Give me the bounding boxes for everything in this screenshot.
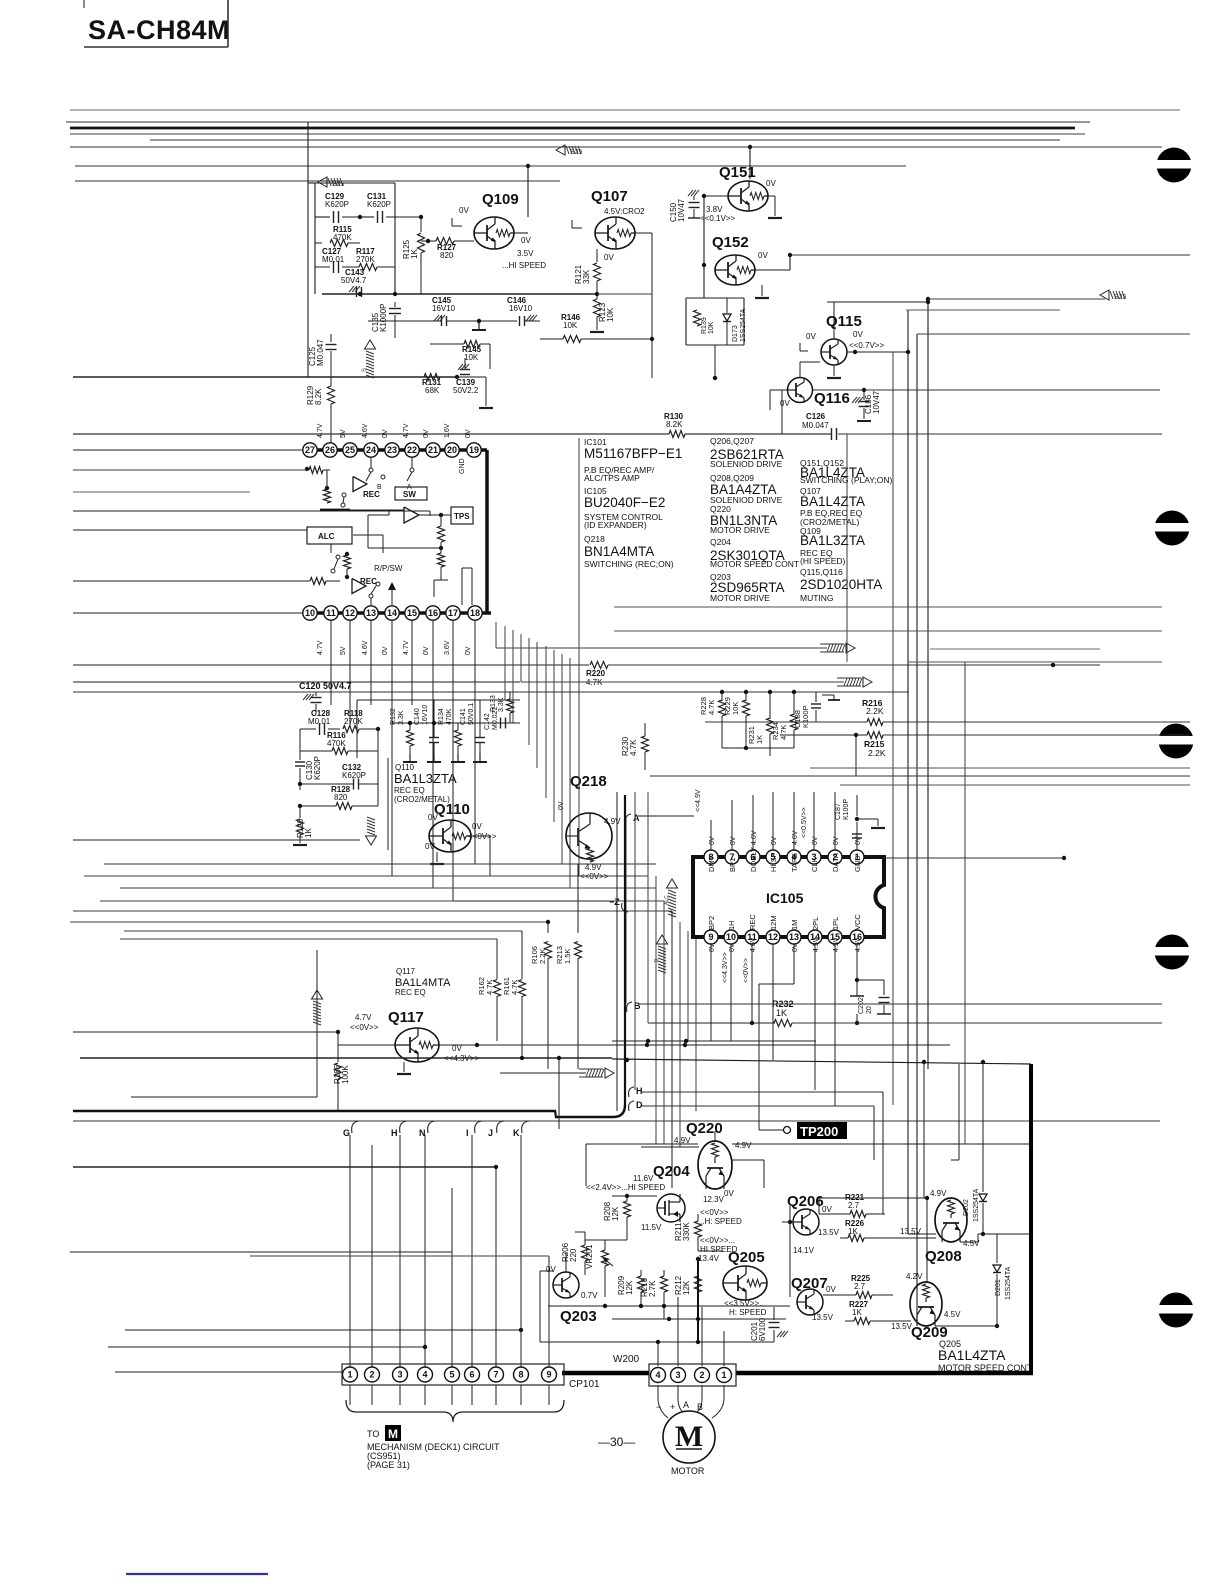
diode D173 1SS254TA (723, 314, 731, 321)
IC101 pin 21 (426, 443, 440, 457)
IC101 pin 27 (303, 443, 317, 457)
Q204 gate wire (627, 1239, 640, 1241)
svg-text:M51167BFP−E1: M51167BFP−E1 (584, 446, 682, 461)
svg-text:9: 9 (708, 932, 713, 942)
svg-text:1.6V: 1.6V (444, 423, 451, 438)
svg-text:12: 12 (768, 932, 778, 942)
wire y1330 (125, 1329, 521, 1331)
svg-text:12.3V: 12.3V (703, 1195, 725, 1204)
bus line 4 (70, 133, 1085, 135)
svg-text:22: 22 (407, 445, 417, 455)
transistor Q203 (553, 1272, 579, 1298)
svg-text:B: B (697, 1402, 703, 1412)
svg-text:0V: 0V (423, 429, 430, 438)
svg-text:4.5V: 4.5V (833, 937, 840, 952)
IC101 resistor TPS chain lower (438, 553, 445, 567)
svg-text:CLK: CLK (810, 857, 819, 872)
svg-text:<<0.7V>>: <<0.7V>> (849, 341, 884, 350)
svg-text:REC: REC (363, 490, 380, 499)
registration mark 5 (1159, 1293, 1194, 1328)
IC101 opamp REC top (353, 477, 367, 492)
svg-text:270K: 270K (344, 717, 363, 726)
CP101 pin 9 (542, 1367, 557, 1382)
IC101 pin 11 (324, 606, 338, 620)
svg-text:12K: 12K (682, 1280, 691, 1295)
svg-text:I: I (466, 1128, 469, 1138)
svg-text:...HI SPEED: ...HI SPEED (502, 261, 546, 270)
svg-text:1K: 1K (776, 1008, 787, 1018)
svg-text:0V: 0V (766, 179, 776, 188)
transistor Q117 (395, 1028, 439, 1062)
IC105 pin 4 (787, 850, 801, 864)
cluster bottom wire (722, 747, 794, 749)
svg-text:+: + (670, 1402, 675, 1412)
motor wire curves (658, 1398, 668, 1418)
wire y888 (120, 887, 656, 889)
wire y1041 (612, 1040, 816, 1042)
wire Q220 right (732, 1159, 764, 1161)
svg-text:3.6V: 3.6V (444, 640, 451, 655)
wire y662 right (908, 661, 1162, 663)
IC105 pin 12 (766, 930, 780, 944)
Q206 base wire (789, 1196, 791, 1206)
svg-text:Q218: Q218 (584, 534, 605, 544)
wire Q115 emitter gnd (833, 365, 835, 376)
svg-text:R/P/SW: R/P/SW (374, 564, 403, 573)
svg-text:10: 10 (726, 932, 736, 942)
svg-text:1SS254TA: 1SS254TA (1005, 1266, 1012, 1300)
IC101 body top edge (303, 448, 487, 452)
bus line 3 thick (70, 127, 1075, 130)
wires right stack (614, 606, 1162, 608)
svg-text:1SS254TA: 1SS254TA (740, 308, 747, 342)
svg-text:4.7V: 4.7V (317, 640, 324, 655)
svg-text:10K: 10K (708, 321, 715, 334)
svg-text:68K: 68K (425, 386, 440, 395)
svg-text:M0.047: M0.047 (316, 339, 325, 366)
svg-text:13: 13 (789, 932, 799, 942)
IC101 pin 13 (364, 606, 378, 620)
wire y911 (73, 910, 672, 912)
svg-text:ALC: ALC (318, 532, 335, 541)
ground R126 (293, 844, 307, 846)
IC101 opamp REC bottom (352, 579, 366, 594)
svg-text:100K: 100K (341, 1065, 350, 1084)
dot R121 junction (595, 292, 599, 296)
IC105 pin 2 (828, 850, 842, 864)
IC105 body (693, 857, 884, 937)
svg-text:4.9V: 4.9V (604, 817, 621, 826)
wire y1256 to pin9 (250, 1255, 549, 1257)
svg-text:4.6V: 4.6V (362, 640, 369, 655)
transistor Q205 (723, 1266, 767, 1300)
svg-text:SA-CH84M: SA-CH84M (88, 15, 230, 45)
svg-text:S25: S25 (332, 181, 345, 188)
svg-text:4.6V: 4.6V (362, 423, 369, 438)
svg-text:VCC: VCC (853, 914, 862, 930)
motor block top border (586, 1143, 698, 1145)
IC101 pin 24 (364, 443, 378, 457)
svg-text:4: 4 (655, 1370, 660, 1380)
transistor Q116 (788, 378, 813, 403)
wire y776 (650, 775, 1190, 777)
node K hook (522, 1121, 529, 1133)
IC101 pin 23 (385, 443, 399, 457)
node N hook (428, 1121, 435, 1133)
wire y864 long (104, 863, 656, 865)
long wire y434 (73, 433, 669, 435)
svg-text:0V: 0V (806, 332, 816, 341)
wire R145 to C139 junction (464, 344, 466, 358)
IC101 pin 19 (467, 443, 481, 457)
svg-text:MOTOR SPEED CONT: MOTOR SPEED CONT (710, 559, 799, 569)
bus line 8 partial (75, 180, 560, 182)
svg-text:−: − (656, 1402, 661, 1412)
wire y1069 to border (612, 1059, 1031, 1064)
svg-text:20: 20 (866, 1006, 873, 1014)
svg-text:S25: S25 (1114, 294, 1127, 301)
svg-text:0.7V: 0.7V (581, 1291, 598, 1300)
svg-text:REC EQ: REC EQ (394, 786, 425, 795)
svg-text:0V: 0V (546, 1265, 556, 1274)
svg-text:10K: 10K (606, 307, 615, 322)
svg-text:0V: 0V (826, 1285, 836, 1294)
IC105 pin 6 (746, 850, 760, 864)
IC101 arrow mid (388, 582, 396, 590)
svg-text:DATA: DATA (831, 853, 840, 872)
wire Q152 output right (755, 269, 790, 271)
svg-text:S25: S25 (570, 149, 583, 156)
svg-text:HI SP: HI SP (769, 852, 778, 872)
arrow down hatched (366, 836, 377, 845)
arrow up ALC25 (365, 340, 376, 349)
CP101 pin 1 (343, 1367, 358, 1382)
svg-text:8.2K: 8.2K (314, 388, 323, 405)
svg-text:MOTOR: MOTOR (671, 1466, 705, 1476)
svg-text:R134: R134 (438, 708, 445, 725)
CP101 pin 4 (418, 1367, 433, 1382)
connector W200 body (649, 1364, 736, 1386)
arrow up on Q117 block (312, 990, 323, 999)
wire y1058 dark (80, 1057, 612, 1059)
ground under R123 (590, 331, 604, 333)
svg-text:4.6V: 4.6V (750, 937, 757, 952)
svg-text:0V: 0V (771, 836, 778, 845)
arrow up left of IC105 a (667, 879, 678, 888)
svg-text:820: 820 (334, 793, 348, 802)
IC101 pin 20 (445, 443, 459, 457)
svg-text:..H: SPEED: ..H: SPEED (700, 1217, 742, 1226)
node G hook (352, 1121, 359, 1133)
wire to REC y581 (73, 580, 310, 582)
svg-text:BU2040F−E2: BU2040F−E2 (584, 495, 665, 510)
vertical x893 (892, 352, 894, 1105)
svg-text:1M: 1M (790, 920, 799, 930)
svg-text:6V100: 6V100 (758, 1317, 767, 1341)
svg-text:11.5V: 11.5V (641, 1223, 662, 1232)
svg-text:M: M (388, 1427, 398, 1441)
svg-text:MUTING: MUTING (800, 593, 834, 603)
node I hook (475, 1121, 482, 1133)
svg-text:K100P: K100P (843, 799, 850, 820)
svg-text:0V: 0V (465, 429, 472, 438)
svg-text:(ID EXPANDER): (ID EXPANDER) (584, 520, 647, 530)
svg-text:5V: 5V (340, 646, 347, 655)
wire y785 (840, 784, 1190, 786)
svg-text:0V: 0V (758, 251, 768, 260)
wire y723 right (510, 722, 520, 724)
IC105 pin 13 (787, 930, 801, 944)
wire Q115 collector top (833, 302, 835, 339)
svg-text:13: 13 (366, 608, 376, 618)
transistor Q204 fet (657, 1194, 685, 1222)
svg-text:16: 16 (428, 608, 438, 618)
vertical x847 (846, 434, 848, 662)
blue pen line (126, 1573, 268, 1575)
svg-text:0V: 0V (521, 236, 531, 245)
svg-text:DMT: DMT (707, 855, 716, 872)
wire y876 (84, 875, 648, 877)
svg-text:<<4.9V: <<4.9V (695, 789, 702, 812)
IC101 inner bus segment (320, 509, 350, 512)
svg-text:D202: D202 (963, 1199, 970, 1216)
Q110 emitter ground (436, 852, 438, 862)
svg-text:D: D (636, 1100, 643, 1110)
wire y901 (100, 900, 664, 902)
IC105 pin 8 (704, 850, 718, 864)
Q220 collector wire (714, 1131, 716, 1141)
svg-text:Q204: Q204 (710, 537, 731, 547)
IC101 wire ALC right (353, 534, 383, 536)
svg-text:BP2: BP2 (707, 916, 716, 930)
IC101 opamp TPS (404, 507, 419, 523)
IC101 pin 12 (343, 606, 357, 620)
svg-text:470K: 470K (327, 739, 346, 748)
Q208 wires (936, 1233, 942, 1235)
svg-text:Q117: Q117 (396, 967, 416, 976)
svg-text:220: 220 (569, 1248, 578, 1262)
svg-text:6: 6 (469, 1370, 474, 1380)
svg-text:H: H (391, 1128, 398, 1138)
IC101 resistor mid ALC (344, 555, 351, 569)
wire Q207 to Q209 (823, 1301, 850, 1303)
svg-text:17: 17 (448, 608, 458, 618)
svg-text:REC EQ: REC EQ (395, 988, 426, 997)
svg-text:Q116: Q116 (814, 390, 850, 407)
IC101 pin 16 (426, 606, 440, 620)
svg-text:4.7V: 4.7V (355, 1013, 372, 1022)
svg-text:−Z: −Z (609, 897, 620, 907)
svg-text:0V: 0V (423, 646, 430, 655)
svg-text:A: A (683, 1400, 689, 1410)
svg-text:TP200: TP200 (800, 1124, 838, 1139)
svg-text:820: 820 (440, 251, 454, 260)
svg-text:K620P: K620P (325, 200, 349, 209)
W200 pin 2 (695, 1368, 710, 1383)
wire y665 with R220 (73, 664, 589, 666)
svg-text:2.2K: 2.2K (866, 706, 884, 716)
IC101 switch below (342, 493, 346, 497)
svg-text:4.9V: 4.9V (735, 1141, 752, 1150)
vertical x965 (964, 662, 966, 1144)
svg-text:27: 27 (305, 445, 315, 455)
svg-text:1H: 1H (727, 920, 736, 930)
svg-text:K1000P: K1000P (379, 304, 388, 332)
svg-text:Q152: Q152 (712, 234, 749, 251)
svg-text:C141: C141 (460, 708, 467, 725)
wire y840 (73, 839, 360, 841)
transistor Q220 (698, 1141, 732, 1189)
title box border (227, 0, 229, 47)
wire bus to Q151 (748, 145, 752, 149)
svg-text:R133: R133 (490, 695, 497, 712)
wire right vertical x928 (926, 297, 930, 301)
wire Q115 output (847, 351, 908, 353)
svg-text:1K: 1K (304, 828, 313, 838)
wire y1252 (70, 1251, 452, 1253)
W200 pin 4 (651, 1368, 666, 1383)
svg-text:5: 5 (449, 1370, 454, 1380)
wire y1372 left (115, 1371, 342, 1373)
svg-text:4.6V: 4.6V (792, 830, 799, 845)
svg-text:D173: D173 (732, 325, 739, 342)
svg-text:BA1L4ZTA: BA1L4ZTA (800, 494, 865, 509)
thick border horizontal right (736, 1371, 1033, 1376)
svg-text:MOTOR DRIVE: MOTOR DRIVE (710, 525, 770, 535)
svg-text:0V: 0V (853, 330, 863, 339)
wire y1167 dark (73, 1166, 496, 1168)
IC101 SW box (395, 487, 427, 500)
svg-text:20: 20 (447, 445, 457, 455)
svg-text:2.7: 2.7 (848, 1201, 860, 1210)
Q117 emitter ground (403, 1062, 405, 1072)
svg-text:1K: 1K (755, 735, 764, 744)
wire y1347 (108, 1346, 426, 1348)
W200 pin 3 (671, 1368, 686, 1383)
svg-text:0V: 0V (730, 836, 737, 845)
svg-text:<<0.1V>>: <<0.1V>> (700, 214, 735, 223)
IC105 pin 14 (808, 930, 822, 944)
svg-text:24: 24 (366, 445, 376, 455)
IC101 TPS box (451, 507, 473, 524)
node H hook (400, 1121, 407, 1133)
brace under CP101 (346, 1400, 564, 1422)
svg-text:16V10: 16V10 (432, 304, 456, 313)
Q117 block outline (131, 1096, 317, 1098)
registration mark 3 (1159, 724, 1194, 759)
svg-text:BA1L3ZTA: BA1L3ZTA (800, 533, 865, 548)
IC101 switch near pin13 (370, 598, 372, 605)
Q203 box lines (539, 1271, 541, 1342)
svg-text:4.5V: 4.5V (855, 937, 862, 952)
svg-text:Q205: Q205 (728, 1249, 765, 1266)
svg-text:3.8V: 3.8V (706, 205, 723, 214)
svg-text:11: 11 (326, 608, 336, 618)
ground Q152 emitter (761, 285, 763, 296)
svg-text:10K: 10K (464, 353, 479, 362)
bus line 6 (70, 146, 1162, 148)
svg-text:Q107: Q107 (591, 188, 628, 205)
IC101 pin 22 (405, 443, 419, 457)
wire y1069 arrow (500, 1072, 586, 1074)
svg-text:4.7V: 4.7V (403, 640, 410, 655)
IC101 ALC box (307, 527, 352, 544)
svg-text:BN1A4MTA: BN1A4MTA (584, 544, 654, 559)
wire to pin10 (73, 612, 303, 614)
svg-text:25: 25 (345, 445, 355, 455)
svg-text:0V: 0V (382, 429, 389, 438)
svg-text:10K: 10K (563, 321, 578, 330)
IC101 resistor TPS chain upper (438, 526, 445, 542)
svg-text:13.4V: 13.4V (698, 1254, 720, 1263)
node H hook (629, 1087, 634, 1097)
svg-text:4.7K: 4.7K (629, 739, 638, 756)
svg-text:8: 8 (518, 1370, 523, 1380)
svg-text:16V10: 16V10 (509, 304, 533, 313)
svg-text:M: M (675, 1420, 703, 1453)
svg-text:13.5V: 13.5V (812, 1313, 834, 1322)
wire Q116 base left (770, 389, 787, 391)
IC105 pin 10 (724, 930, 738, 944)
ground Q151 emitter (768, 195, 775, 197)
svg-text:8.2K: 8.2K (666, 420, 683, 429)
IC101 pin 18 (468, 606, 482, 620)
svg-text:IC105: IC105 (766, 890, 804, 906)
wire Q208 top (958, 1064, 960, 1160)
IC105 pin 7 (725, 850, 739, 864)
IC101 pin 10 (303, 606, 317, 620)
resistor R127 820 (436, 238, 454, 245)
svg-text:Q220: Q220 (686, 1120, 723, 1137)
verticals to CP101 (349, 1135, 351, 1368)
node B hook (627, 1002, 632, 1012)
wire dark y294 (322, 293, 598, 295)
W200 pin 1 (717, 1368, 732, 1383)
svg-text:13.5V: 13.5V (818, 1228, 840, 1237)
svg-text:W200: W200 (613, 1354, 640, 1365)
svg-text:4.5V:CRO2: 4.5V:CRO2 (604, 207, 645, 216)
wire pin16 down (856, 944, 858, 980)
svg-text:TPS: TPS (454, 512, 470, 521)
svg-text:33K: 33K (582, 269, 591, 284)
svg-text:0V: 0V (604, 253, 614, 262)
svg-text:Q117: Q117 (388, 1009, 424, 1026)
svg-text:0V: 0V (709, 943, 716, 952)
transistor Q209 (910, 1282, 942, 1326)
wire y682 (73, 681, 520, 683)
svg-text:<<0V>>...: <<0V>>... (700, 1236, 735, 1245)
Q203 collector (565, 1252, 567, 1272)
svg-text:C120 50V4.7: C120 50V4.7 (299, 681, 352, 691)
svg-text:330K: 330K (682, 1222, 691, 1241)
W200 pin stubs (657, 1385, 659, 1398)
svg-text:Q115,Q116: Q115,Q116 (800, 567, 843, 577)
IC101 resistor before pin11 (310, 578, 326, 585)
wire y939 (120, 938, 497, 940)
svg-text:4.5V: 4.5V (944, 1310, 961, 1319)
svg-text:3.5V: 3.5V (517, 249, 534, 258)
wire to pin area y511 (73, 510, 430, 512)
svg-text:12M: 12M (769, 915, 778, 930)
svg-text:4.6V: 4.6V (751, 830, 758, 845)
thick vertical x698 down (697, 1259, 699, 1342)
node Z hook (455, 900, 608, 902)
wire y635 arrow (496, 647, 827, 649)
box around C129 cluster (315, 182, 395, 184)
TP200 test point (797, 1122, 847, 1139)
svg-text:10V47: 10V47 (872, 390, 881, 414)
wire box down (714, 345, 716, 378)
